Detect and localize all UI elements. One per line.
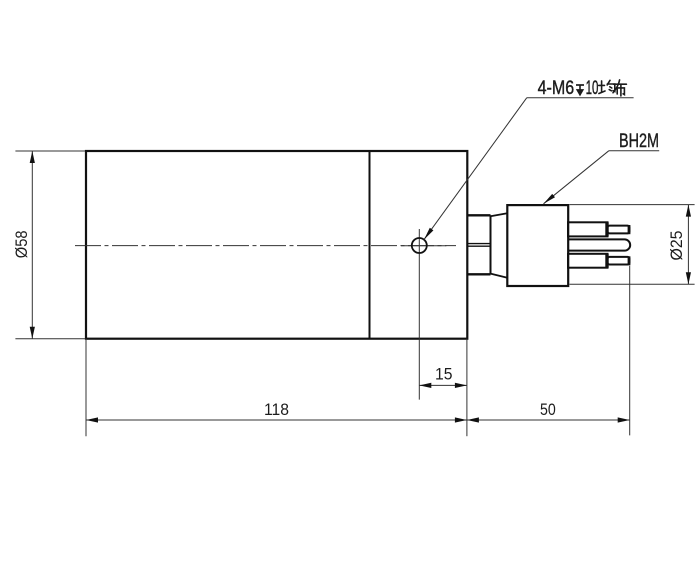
connector body BH2M <box>507 205 568 286</box>
hole vertical centerline <box>418 229 420 400</box>
ext line left below <box>85 339 87 437</box>
hole circle M6 <box>412 238 427 253</box>
leader 4-M6 <box>424 98 527 240</box>
pin 1 base <box>568 222 608 236</box>
svg-text:50: 50 <box>540 400 556 419</box>
body section line <box>369 151 371 339</box>
glyph 均 <box>599 80 615 93</box>
svg-text:15: 15 <box>435 364 453 383</box>
dim 118 line <box>86 419 467 421</box>
main body rectangle <box>86 151 467 339</box>
connector cone <box>491 213 508 278</box>
svg-text:10: 10 <box>586 78 599 99</box>
dim Ø25 extension bottom <box>570 283 695 285</box>
dim Ø58 extension bottom <box>15 338 85 340</box>
svg-text:4-M6: 4-M6 <box>538 78 575 99</box>
pin 2 (middle) <box>568 239 630 250</box>
ext line right below <box>466 339 468 437</box>
pin 3 tip <box>608 257 630 265</box>
leader BH2M <box>544 151 609 204</box>
hole horizontal centerline <box>401 245 446 247</box>
connector nut <box>467 215 490 274</box>
dim Ø58 line <box>31 151 33 339</box>
dim 50 line <box>467 419 630 421</box>
svg-text:BH2M: BH2M <box>619 131 659 152</box>
svg-text:118: 118 <box>264 400 289 419</box>
svg-text:Ø25: Ø25 <box>667 231 686 261</box>
main centerline <box>75 245 456 247</box>
depth symbol <box>576 85 584 95</box>
pin 3 collar <box>605 254 608 268</box>
dim Ø25 line <box>687 205 689 285</box>
ext line pin end <box>629 266 631 436</box>
dim 15 line <box>419 384 467 386</box>
pin 3 base <box>568 254 608 268</box>
svg-text:Ø58: Ø58 <box>12 231 31 259</box>
pin 1 tip <box>608 226 630 234</box>
pin 1 collar <box>605 222 608 236</box>
glyph 布 <box>613 80 626 96</box>
dim Ø58 extension top <box>15 150 85 152</box>
dim Ø25 extension top <box>570 204 695 206</box>
